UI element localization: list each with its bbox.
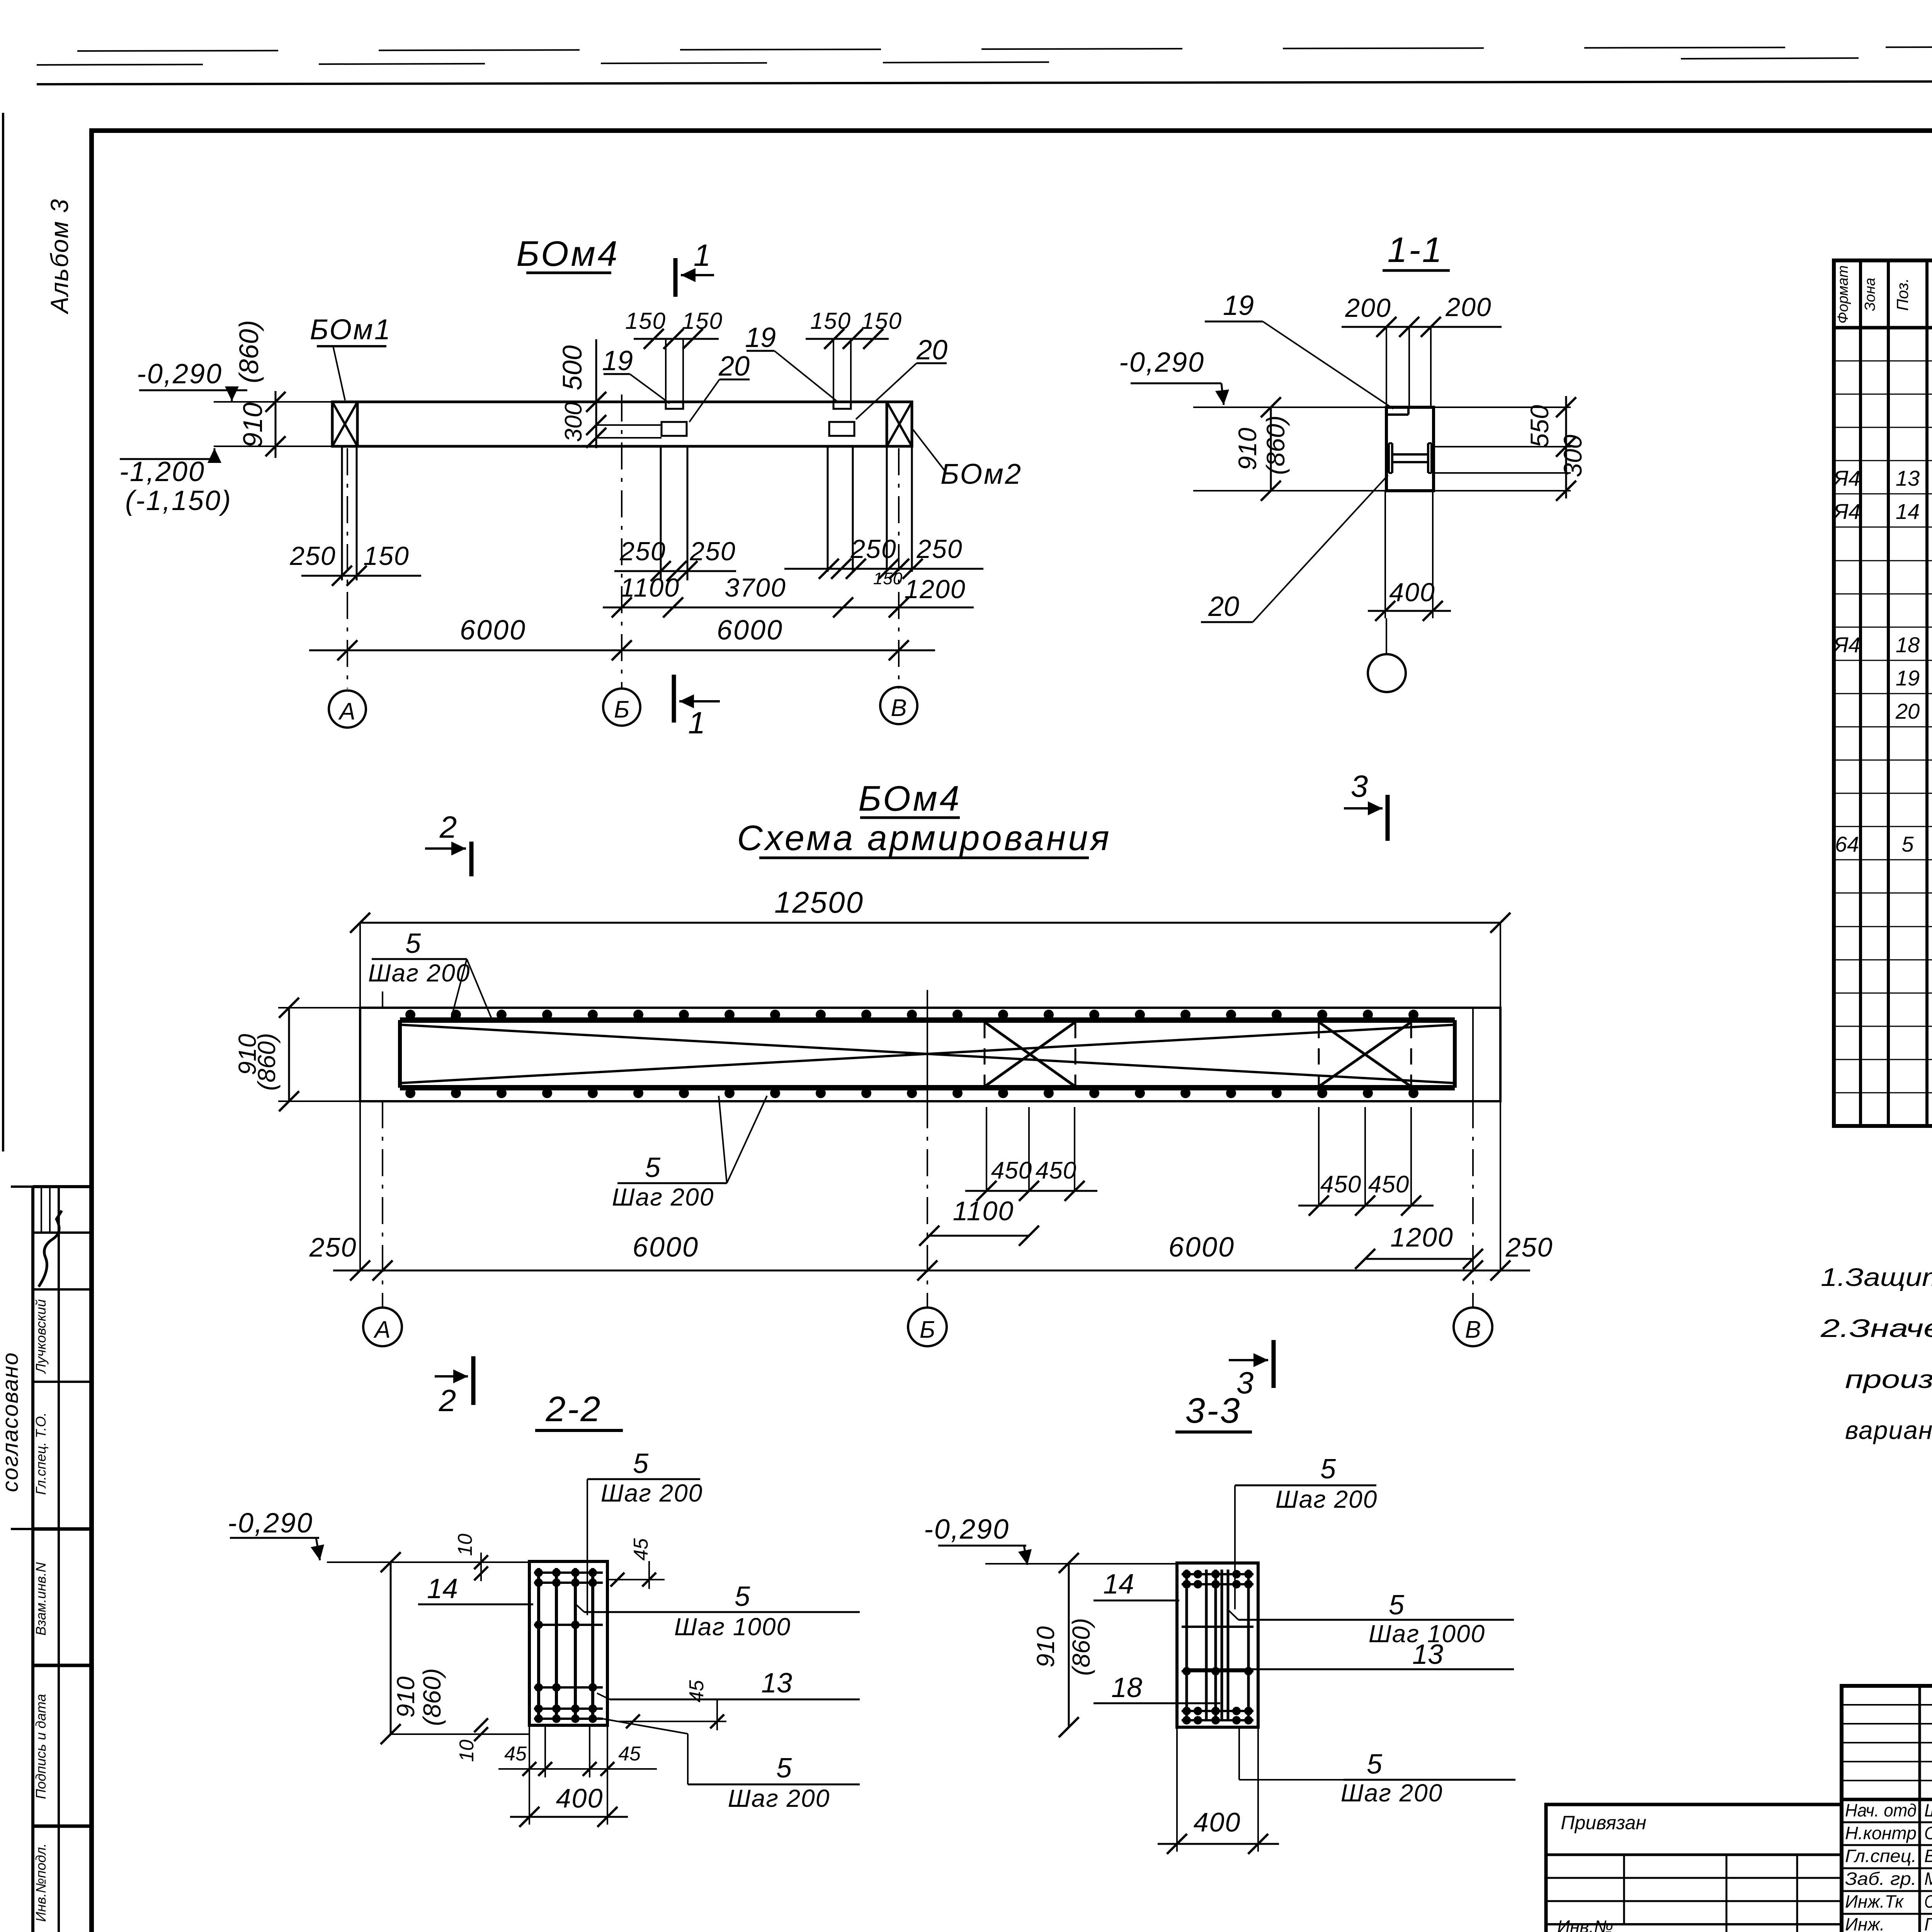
svg-text:19: 19 [602,345,633,376]
svg-text:5: 5 [1367,1749,1383,1780]
vertical dimension 500 [595,339,597,402]
svg-text:200: 200 [1345,293,1391,323]
grid circle A [329,690,366,728]
title block thick line above name rows [1842,1798,1932,1801]
spec table row lines [1834,361,1932,362]
svg-text:Я4: Я4 [1832,466,1860,490]
svg-text:400: 400 [1389,578,1435,607]
svg-text:2-2: 2-2 [546,1389,602,1429]
3-3 dimension 400 [1176,1727,1178,1852]
svg-text:400: 400 [1194,1807,1241,1837]
svg-text:20: 20 [916,335,947,366]
schema grid axis B [927,990,928,1101]
2-2 vertical dimension 910 (860) [390,1562,392,1734]
svg-text:В: В [1465,1316,1481,1343]
svg-text:Нач. отд: Нач. отд [1845,1800,1917,1820]
schema 450 450 dimension near V [1318,1107,1320,1206]
svg-text:150: 150 [810,308,851,334]
svg-text:5: 5 [633,1448,649,1479]
svg-text:910: 910 [1233,428,1262,470]
svg-text:5: 5 [405,928,421,959]
svg-text:(860): (860) [418,1668,446,1726]
svg-text:20: 20 [718,351,750,382]
section mark 2 top [469,842,474,876]
svg-text:БОм4: БОм4 [516,234,620,274]
2-2 bottom extension line [390,1733,529,1735]
dimension 200 extension lines up [1386,327,1387,407]
2-2 top extension line [327,1561,529,1563]
3-3 cage stirrups [1182,1573,1253,1575]
svg-text:18: 18 [1111,1672,1142,1703]
svg-text:10: 10 [454,1534,476,1556]
schema X panel near V dashed edges [1318,1022,1320,1087]
privyazan box title row line [1546,1854,1842,1856]
svg-text:5: 5 [1389,1590,1405,1621]
svg-text:(860): (860) [253,1033,281,1090]
schema long diagonal 2 [400,1025,1455,1083]
svg-text:Шейко: Шейко [1924,1800,1932,1820]
svg-text:Заб. гр.: Заб. гр. [1845,1869,1917,1889]
svg-text:150: 150 [363,541,409,571]
schema grid circle A [363,1308,402,1346]
svg-text:1: 1 [694,238,711,272]
section 1-1 notch plate 19 [1386,413,1408,416]
left stamp top box dividers [41,1187,42,1233]
svg-text:Я4: Я4 [1832,499,1860,524]
section mark 2 bottom [471,1356,476,1405]
svg-text:10: 10 [456,1740,478,1762]
svg-text:Зона: Зона [1862,278,1878,311]
svg-text:Взам.инв.N: Взам.инв.N [33,1562,49,1636]
schema 450 450 dimension near B [986,1107,987,1191]
2-2 cage dots [534,1568,543,1577]
leader BOm1 [333,346,345,400]
svg-text:варианте.: варианте. [1845,1416,1932,1444]
left stamp signature [39,1211,62,1287]
svg-text:12500: 12500 [774,885,864,919]
svg-text:Альбом 3: Альбом 3 [46,198,73,315]
leader 20 right [856,363,917,419]
svg-text:200: 200 [1445,293,1492,322]
svg-text:300: 300 [1558,435,1587,477]
svg-text:910: 910 [1032,1626,1060,1667]
schema cage top rebar [400,1017,1455,1023]
svg-text:1-1: 1-1 [1388,230,1444,270]
embed plate 20 middle [662,422,687,436]
svg-text:Голосов: Голосов [1924,1914,1932,1932]
svg-text:согласовано: согласовано [0,1352,23,1492]
svg-text:45: 45 [630,1538,652,1561]
svg-text:3-3: 3-3 [1185,1391,1242,1430]
section mark 1 bottom [672,675,676,723]
svg-text:БОм4: БОм4 [858,779,962,818]
dimension row 250 250 250 right [784,568,983,570]
embed plate 19 right notch [833,402,851,409]
3-3 top extension line [985,1563,1177,1565]
svg-text:5: 5 [735,1581,750,1612]
dimension row 6000 6000 [309,650,935,651]
grid axis B dash-dot [621,395,622,689]
3-3 box outline [1177,1563,1258,1727]
privyazan box outline [1546,1804,1842,1932]
section 1-1 right extension lines [1434,406,1571,408]
svg-text:250: 250 [1505,1232,1553,1262]
svg-text:45: 45 [618,1743,641,1765]
svg-text:Н.контр: Н.контр [1845,1823,1917,1843]
svg-text:13: 13 [761,1668,792,1699]
svg-text:Я4: Я4 [1832,633,1860,657]
elevation title underline [526,272,611,274]
schema dimension 1200 [1365,1258,1473,1260]
grid circle B [603,689,640,726]
schema cage bottom rebar [400,1085,1455,1090]
title block upper grid rows [1842,1704,1932,1706]
schema dimension row 250 6000 6000 250 [333,1270,1530,1272]
svg-text:Инж.: Инж. [1845,1914,1885,1932]
svg-text:Гл.спец. Т.О.: Гл.спец. Т.О. [33,1412,49,1495]
svg-text:Шаг 200: Шаг 200 [601,1479,703,1507]
dimension 200 200 [1342,326,1502,328]
vertical dimension 910 (860) section 1-1 [1270,407,1272,491]
schema long diagonal 1 [400,1025,1455,1083]
plate edge extension lines [596,424,662,426]
svg-text:450: 450 [991,1157,1032,1184]
svg-text:Власенко: Власенко [1924,1846,1932,1866]
svg-text:БОм2: БОм2 [940,458,1022,490]
schema cage left bar [398,1020,402,1088]
svg-text:150: 150 [625,308,666,334]
svg-text:250: 250 [309,1232,357,1262]
leader 20 section 1-1 [1253,475,1388,622]
elevation beam end block BOm1 left [332,402,357,446]
svg-text:-0,290: -0,290 [228,1508,313,1539]
schema grid axis A [382,992,383,1008]
svg-text:А: А [338,698,355,725]
svg-text:1.Защитный слой бетона для: 1.Защитный слой бетона для рабочей армат… [1821,1263,1932,1291]
schema stirrup dots top row [405,1010,415,1020]
svg-text:Формат: Формат [1835,265,1851,324]
svg-text:Б: Б [614,696,629,723]
dimension 400 section 1-1 [1384,491,1386,618]
section 1-1 left extension lines [1193,406,1386,408]
svg-text:Шаг 200: Шаг 200 [368,959,471,987]
schema grid axis V [1472,1008,1474,1101]
beam top line extension left [214,401,332,403]
svg-text:5: 5 [645,1152,661,1183]
2-2 box outline [529,1561,607,1725]
svg-text:910: 910 [392,1676,420,1718]
title block outline [1842,1686,1932,1932]
svg-text:-0,290: -0,290 [924,1514,1010,1545]
dimension row 250 150 left [301,575,421,577]
embed plate 20 right [829,422,854,436]
schema X panel near B dashed edges [984,1022,986,1087]
section 1-1 embed channel 20 [1388,443,1390,473]
schema dimension 1100 [929,1235,1029,1237]
svg-text:13: 13 [1412,1639,1443,1670]
section mark 3 top [1386,795,1390,841]
svg-text:Инв.№подл.: Инв.№подл. [33,1843,49,1922]
grid circle V [880,687,917,724]
svg-text:250: 250 [689,537,736,566]
svg-text:150: 150 [682,308,723,334]
dimension 150 150 middle embed [634,338,719,340]
2-2 dimension 400 [529,1725,530,1825]
svg-text:5: 5 [776,1753,792,1784]
beam bottom line extension left [214,446,332,447]
svg-text:450: 450 [1320,1171,1361,1198]
svg-text:6000: 6000 [717,615,783,646]
svg-text:Лучковский: Лучковский [33,1299,49,1374]
svg-text:Подпись и дата: Подпись и дата [33,1694,49,1799]
svg-text:150: 150 [861,308,902,334]
svg-text:250: 250 [289,541,336,571]
svg-text:6000: 6000 [633,1232,699,1263]
svg-text:(860): (860) [1067,1618,1095,1675]
svg-text:3700: 3700 [724,573,786,602]
privyazan box row lines [1546,1877,1842,1879]
dimension row 1100 3700 1200 [603,607,974,609]
svg-text:14: 14 [1896,499,1920,524]
outer border top line [37,80,1932,84]
svg-text:250: 250 [619,537,666,566]
spec table outer border [1834,260,1932,1126]
title block upper grid verticals [1918,1686,1921,1932]
schema grid circle V [1454,1308,1492,1346]
leader 19 section 1-1 [1263,321,1393,409]
schema X panel near B cross [985,1022,1075,1087]
svg-text:А: А [373,1316,390,1343]
svg-text:производства работ в сборно: производства работ в сборно-монолитном [1845,1365,1932,1393]
svg-text:1100: 1100 [620,573,680,602]
svg-text:14: 14 [1103,1569,1134,1600]
svg-text:1200: 1200 [904,575,966,604]
leader 20 middle [689,379,719,422]
grid axis V dash-dot [898,448,900,689]
svg-text:13: 13 [1896,466,1920,490]
svg-text:250: 250 [916,534,963,564]
3-3 cage vertical bars [1185,1570,1188,1721]
3-3 cage dots [1182,1570,1191,1578]
2-2 cage vertical bars [537,1568,540,1719]
title block name rows [1842,1821,1932,1823]
svg-text:20: 20 [1208,591,1239,622]
svg-text:(860): (860) [1261,415,1290,475]
svg-text:Шаг 200: Шаг 200 [1341,1779,1443,1807]
outer border left line [2,113,4,1151]
left stamp column verticals [31,1187,34,1932]
section mark 3 bottom [1272,1340,1276,1388]
svg-text:Сокольская: Сокольская [1924,1823,1932,1843]
grid axis A dash-dot [347,448,348,689]
svg-text:450: 450 [1368,1171,1409,1198]
section mark 1 top [673,258,678,297]
vertical dimension 550 [1565,396,1567,498]
spec table header bottom line [1834,326,1932,330]
svg-text:20: 20 [1895,699,1920,723]
svg-text:2.Значения в скобках для о: 2.Значения в скобках для открытого спосо… [1820,1314,1932,1342]
svg-text:18: 18 [1896,633,1920,657]
svg-text:(860): (860) [234,320,264,383]
svg-text:6000: 6000 [1168,1232,1235,1263]
svg-text:150: 150 [873,569,903,588]
leader 19 middle [630,374,670,403]
schema stirrup dots bottom row [405,1088,415,1098]
scan artifact dashed lines top [77,46,1932,51]
svg-text:Соколовская: Соколовская [1924,1891,1932,1912]
svg-text:2: 2 [439,1383,456,1418]
svg-text:64: 64 [1835,832,1859,856]
svg-text:14: 14 [427,1573,458,1604]
svg-text:500: 500 [557,345,587,391]
schema beam outline [360,1008,1500,1101]
2-2 cage stirrups [534,1571,603,1574]
svg-text:300: 300 [560,402,587,442]
svg-text:-0,290: -0,290 [1119,347,1205,378]
svg-text:Гл.спец.: Гл.спец. [1845,1846,1917,1866]
svg-text:(-1,150): (-1,150) [125,485,232,516]
svg-text:450: 450 [1036,1157,1077,1184]
section 1-1 axis line [1386,618,1387,655]
svg-text:В: В [891,695,906,721]
svg-text:910: 910 [238,403,268,448]
svg-text:Шаг 200: Шаг 200 [1276,1485,1378,1513]
dimension row 250 250 middle [614,570,736,572]
svg-text:Шаг 200: Шаг 200 [728,1784,830,1812]
svg-text:-0,290: -0,290 [137,359,223,389]
3-3 vertical dimension 910 (860) [1068,1563,1070,1727]
schema X panel near V cross [1319,1022,1411,1087]
svg-text:5: 5 [1320,1454,1336,1485]
leader BOm2 [913,430,946,472]
schema cage right bar [1453,1020,1457,1088]
svg-text:1: 1 [688,706,706,740]
support wall lines below beam [341,446,343,580]
svg-text:1200: 1200 [1390,1222,1454,1252]
svg-text:400: 400 [556,1783,604,1813]
vertical dimension 300 [595,402,597,448]
svg-text:45: 45 [504,1743,527,1765]
svg-text:-1,200: -1,200 [119,456,205,487]
svg-text:Шаг 1000: Шаг 1000 [674,1613,791,1641]
elevation beam outline [332,402,912,446]
svg-text:250: 250 [850,534,896,564]
svg-text:Инв.№: Инв.№ [1557,1917,1613,1932]
vertical dimension 910 left [275,391,277,458]
left stamp tick marks [11,1185,33,1188]
privyazan box column lines [1623,1855,1625,1924]
svg-text:Привязан: Привязан [1561,1812,1646,1833]
svg-text:19: 19 [745,322,776,353]
svg-text:Инж.Тк: Инж.Тк [1845,1891,1904,1912]
section 1-1 grid circle [1368,654,1406,692]
left stamp column horizontals [33,1185,92,1188]
svg-text:2: 2 [439,810,457,844]
svg-text:Схема армирования: Схема армирования [737,818,1111,858]
svg-text:550: 550 [1525,405,1554,447]
svg-text:45: 45 [685,1680,708,1702]
leader 19 right [774,351,838,402]
svg-text:1100: 1100 [953,1196,1014,1226]
section 1-1 beam body [1386,407,1434,491]
svg-text:5: 5 [1901,832,1914,856]
svg-text:6000: 6000 [460,615,526,646]
svg-text:3: 3 [1351,769,1368,803]
svg-text:19: 19 [1896,666,1920,690]
svg-text:Мазалова: Мазалова [1924,1869,1932,1889]
svg-text:Б: Б [920,1316,935,1343]
svg-text:БОм1: БОм1 [310,313,392,345]
embed plate 19 middle notch [666,402,683,409]
svg-text:19: 19 [1223,290,1254,321]
svg-text:Поз.: Поз. [1893,278,1912,311]
dimension 150 150 right embed [806,338,889,340]
spec table column lines [1859,260,1862,1126]
schema grid circle B [908,1308,947,1346]
svg-text:Шаг 200: Шаг 200 [612,1183,714,1211]
schema left vertical dimension 910 (860) [278,1007,360,1009]
elevation beam end block BOm2 right [887,402,912,446]
